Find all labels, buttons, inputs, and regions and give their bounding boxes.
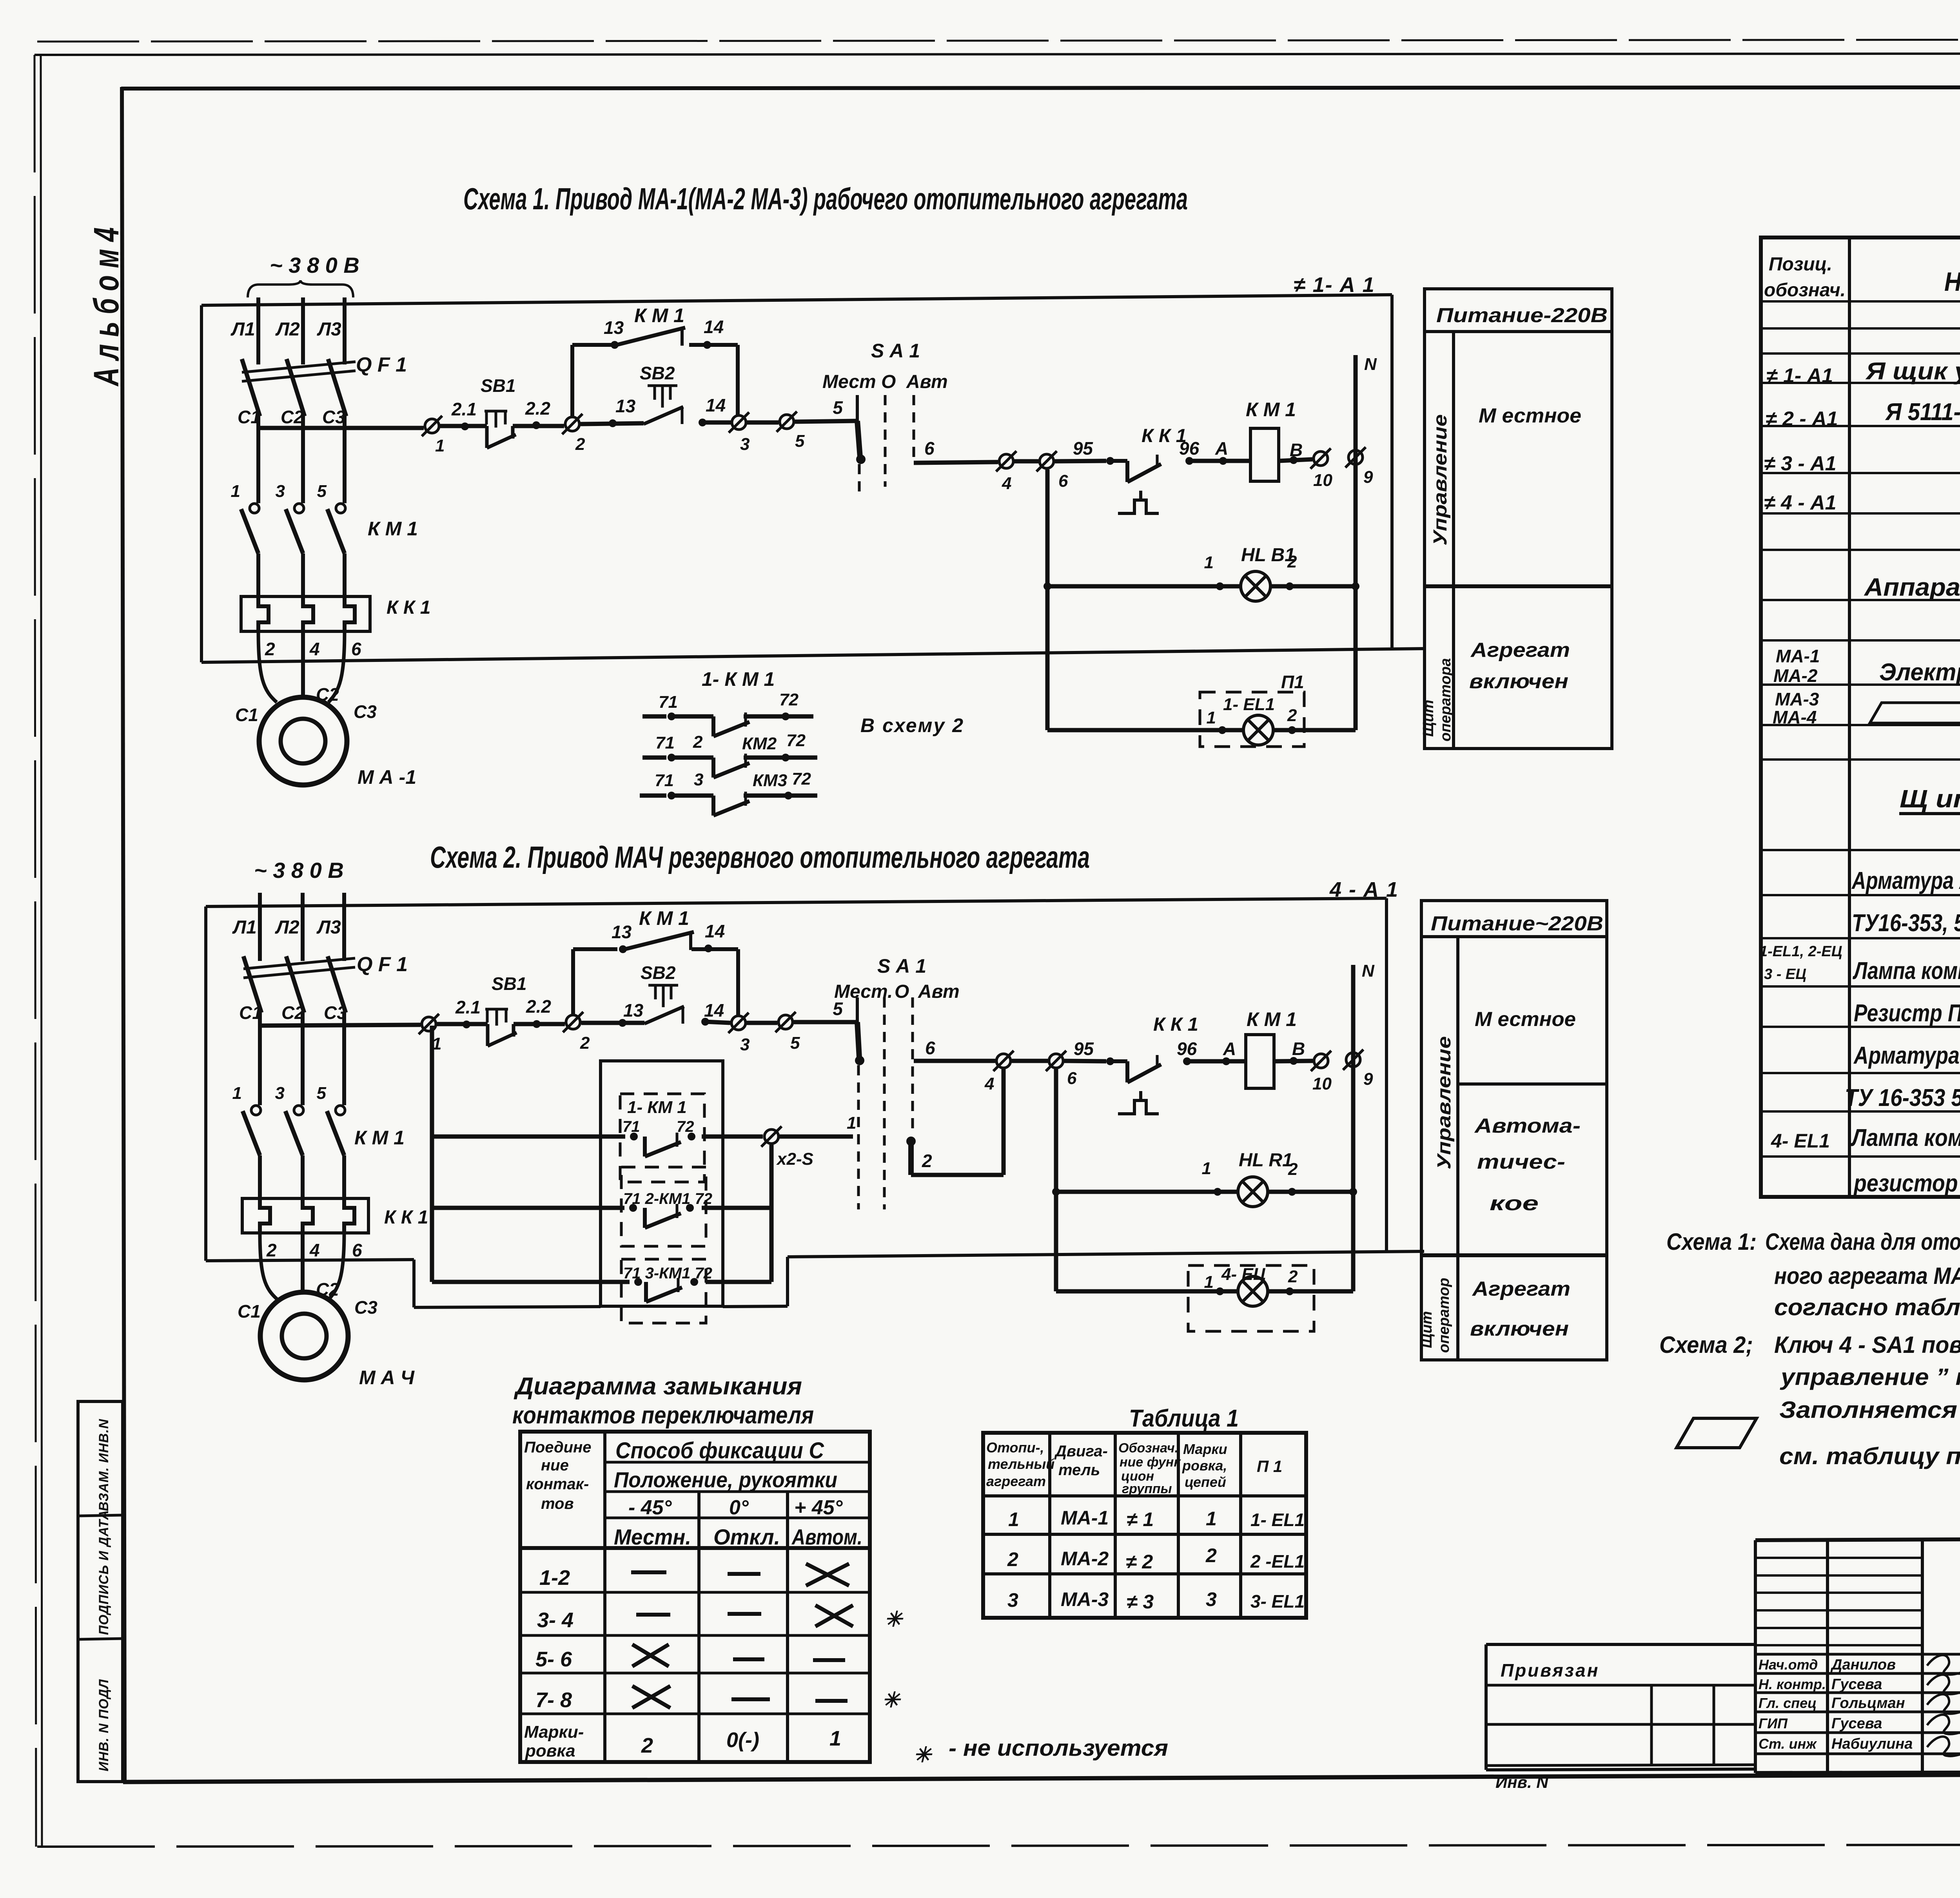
- spec section Щит оператора: [1899, 785, 1960, 814]
- svg-text:Поедине: Поедине: [524, 1439, 592, 1456]
- svg-text:SВ1: SВ1: [481, 375, 515, 396]
- schema 1 supply label ~380В: [270, 253, 359, 277]
- blank reference parallelogram: [1677, 1418, 1757, 1448]
- interlock contact 2-КМ1 line: [432, 1204, 771, 1228]
- svg-text:МА-1: МА-1: [1776, 646, 1820, 666]
- svg-text:ние: ние: [541, 1457, 569, 1474]
- terminal 3 (schema1): [729, 412, 750, 454]
- svg-text:SВ2: SВ2: [640, 363, 675, 383]
- label QF1 (schema2): [357, 953, 408, 976]
- KK1 release symbol (schema2): [1118, 1091, 1159, 1114]
- svg-text:А: А: [1215, 438, 1228, 459]
- terminal 5 (schema2): [775, 1012, 800, 1053]
- terminal 1 (schema2): [419, 1014, 441, 1053]
- svg-text:71 3-КМ1 72: 71 3-КМ1 72: [623, 1265, 712, 1282]
- svg-text:1: 1: [1202, 1159, 1211, 1178]
- label Агрегат включен (schema2): [1470, 1278, 1570, 1340]
- svg-text:х2-S: х2-S: [776, 1149, 813, 1169]
- note Схема 2: [1659, 1332, 1960, 1423]
- stamp strip label ИНВ. N ПОДЛ: [96, 1679, 111, 1771]
- table1 grid: [983, 1433, 1306, 1618]
- svg-text:N: N: [1362, 961, 1375, 981]
- wire SB2 to terminal 3 (schema2): [701, 1018, 730, 1026]
- svg-text:4- ЕL1: 4- ЕL1: [1771, 1130, 1830, 1152]
- terminal x2-S: [761, 1113, 856, 1169]
- outer border top (dashed): [37, 39, 1960, 42]
- svg-text:Нач.отд: Нач.отд: [1759, 1657, 1818, 1673]
- svg-text:О: О: [895, 981, 909, 1002]
- wire SB1 to terminal 2 (schema2): [514, 1020, 565, 1028]
- spec row МА-3 МА-4 motor symbol: [1773, 689, 1960, 727]
- svg-text:2: 2: [1288, 1267, 1298, 1286]
- svg-text:Лампа коммутаторная КМ24-90: Лампа коммутаторная КМ24-90: [1853, 957, 1960, 984]
- svg-text:4: 4: [309, 639, 320, 659]
- svg-text:С1: С1: [238, 407, 261, 427]
- wire 96 to A to coil (schema1): [1185, 457, 1250, 465]
- spec row ≠3-А1: [1764, 452, 1837, 475]
- inner frame top edge: [121, 87, 1960, 89]
- label A (schema1): [1215, 438, 1228, 459]
- svg-text:А: А: [1223, 1039, 1236, 1059]
- svg-text:управление ” после запуска: управление ” после запуска рабочего агре…: [1780, 1364, 1960, 1390]
- stop button SB1 (schema1): [481, 375, 516, 448]
- svg-text:С1: С1: [239, 1002, 262, 1023]
- svg-text:14: 14: [705, 921, 725, 941]
- svg-text:13: 13: [612, 922, 632, 942]
- table1 title: [1129, 1405, 1239, 1432]
- aux contacts group label 1-КМ1: [702, 668, 775, 690]
- svg-text:ТУ16-353, 582-76 в комплекте: ТУ16-353, 582-76 в комплекте:: [1852, 910, 1960, 937]
- label 96 (schema1): [1179, 438, 1200, 459]
- diagram row 7-8: [535, 1686, 901, 1712]
- svg-text:тельный: тельный: [988, 1456, 1054, 1472]
- svg-text:Набиулина: Набиулина: [1831, 1736, 1913, 1752]
- diagram row 1-2: [539, 1564, 849, 1590]
- svg-text:оператор: оператор: [1436, 1278, 1452, 1353]
- spec row ТУ 16-353 582-76 в комплекте: [1845, 1084, 1960, 1111]
- svg-text:- не используется: - не используется: [949, 1735, 1168, 1761]
- svg-text:≠ 1- А1: ≠ 1- А1: [1766, 364, 1833, 387]
- spec row ≠1-А1 Ящик управления: [1766, 358, 1960, 387]
- svg-text:Автома-: Автома-: [1474, 1115, 1581, 1137]
- П1 lamp circuit (schema1): [1047, 726, 1356, 734]
- table1 row 3: [1007, 1588, 1305, 1613]
- svg-text:6: 6: [1058, 471, 1068, 491]
- svg-text:ИНВ. N ПОДЛ: ИНВ. N ПОДЛ: [96, 1679, 111, 1771]
- wire from terminal6 down to lamps (schema1): [1045, 470, 1050, 730]
- svg-text:Агрегат: Агрегат: [1472, 1278, 1570, 1300]
- svg-text:Марки: Марки: [1183, 1441, 1227, 1457]
- svg-text:Данилов: Данилов: [1830, 1657, 1896, 1673]
- svg-text:7- 8: 7- 8: [535, 1688, 572, 1712]
- svg-text:3: 3: [740, 435, 750, 454]
- svg-text:+ 45°: + 45°: [794, 1496, 843, 1519]
- svg-text:Инв. N: Инв. N: [1495, 1773, 1549, 1791]
- label A (schema2): [1223, 1039, 1236, 1059]
- svg-text:4- ЕЦ: 4- ЕЦ: [1221, 1265, 1266, 1284]
- svg-text:6: 6: [925, 1038, 935, 1058]
- svg-text:95: 95: [1073, 438, 1094, 459]
- svg-text:группы: группы: [1122, 1481, 1172, 1496]
- 4-EL1 lamp circuit (schema2): [1056, 1287, 1353, 1295]
- svg-text:1: 1: [232, 1084, 242, 1103]
- svg-text:включен: включен: [1470, 1318, 1569, 1340]
- svg-text:КМ2: КМ2: [742, 734, 777, 753]
- signal lamp HLR1 line (schema2): [1052, 1188, 1357, 1196]
- label KK1 (schema2 heaters): [384, 1207, 428, 1228]
- svg-text:Щит: Щит: [1420, 700, 1437, 737]
- dashed accessory box 1-EL1 (schema1): [1200, 692, 1304, 747]
- svg-text:Авт: Авт: [918, 981, 960, 1002]
- label 2.2 (schema2): [526, 996, 551, 1017]
- svg-text:2.1: 2.1: [455, 997, 481, 1017]
- schema2 phase wire Л1: [258, 893, 262, 961]
- spec row Арматура АМЕ323221: [1851, 867, 1960, 894]
- svg-text:14: 14: [706, 395, 726, 415]
- svg-text:тичес-: тичес-: [1477, 1151, 1565, 1173]
- wire SB1 to terminal 2: [513, 421, 564, 429]
- svg-text:2.2: 2.2: [526, 996, 551, 1017]
- motor MA-1 (schema1): [259, 697, 347, 785]
- svg-text:Положение, рукоятки: Положение, рукоятки: [614, 1467, 837, 1492]
- svg-text:≠ 2: ≠ 2: [1126, 1551, 1153, 1573]
- svg-text:К М 1: К М 1: [368, 518, 418, 540]
- svg-text:П1: П1: [1281, 672, 1304, 692]
- label Инв. N: [1495, 1773, 1549, 1791]
- diagram row Маркировка: [524, 1722, 841, 1760]
- svg-text:Резистр ПЭВ-25 ТУ 16-535-582: Резистр ПЭВ-25 ТУ 16-535-582-76: [1854, 1000, 1960, 1027]
- svg-text:К М 1: К М 1: [354, 1127, 405, 1149]
- note см. таблицу применения: [1779, 1443, 1960, 1469]
- svg-text:резистор ПЭВ-25 ТУ16-535.582-: резистор ПЭВ-25 ТУ16-535.582-76: [1853, 1170, 1960, 1197]
- schema2 phase label Л3: [316, 917, 341, 938]
- motor MA4 terminal labels: [238, 1279, 377, 1322]
- svg-text:10: 10: [1312, 1074, 1332, 1093]
- svg-text:ние функ: ние функ: [1120, 1455, 1181, 1470]
- svg-text:95: 95: [1074, 1039, 1094, 1059]
- svg-text:Автом.: Автом.: [791, 1525, 862, 1549]
- svg-text:Питание~220В: Питание~220В: [1431, 912, 1603, 935]
- svg-text:Гольцман: Гольцман: [1831, 1695, 1905, 1711]
- contactor KM1 main contacts (schema1): [231, 428, 345, 597]
- stop button SB1 (schema2): [485, 973, 526, 1046]
- svg-text:М естное: М естное: [1475, 1008, 1576, 1031]
- svg-text:3: 3: [1007, 1589, 1018, 1611]
- spec header Позиц. обознач.: [1764, 254, 1846, 301]
- svg-text:Аппаратура по месту: Аппаратура по месту: [1864, 573, 1960, 601]
- svg-text:С1: С1: [238, 1301, 261, 1322]
- outer border left lines: [34, 55, 42, 1847]
- title block name rows: [1755, 1654, 1960, 1773]
- svg-text:тель: тель: [1058, 1461, 1100, 1479]
- svg-text:4: 4: [1002, 474, 1011, 493]
- svg-text:ГИП: ГИП: [1759, 1715, 1788, 1731]
- label KK1 (schema1): [1142, 426, 1187, 446]
- svg-text:Мест: Мест: [822, 372, 876, 392]
- svg-text:Авт: Авт: [906, 372, 948, 392]
- svg-text:2 -ЕL1: 2 -ЕL1: [1250, 1551, 1305, 1572]
- label Нач.отд Данилов: [1759, 1657, 1896, 1673]
- svg-text:С2: С2: [316, 684, 339, 705]
- wire rail to SB2 (schema2): [581, 1019, 644, 1027]
- label 71 3-КМ1 72: [623, 1265, 712, 1282]
- svg-text:2: 2: [1287, 706, 1297, 725]
- inner frame left edge: [122, 87, 125, 1782]
- labels 2 4 6 under KK1 (schema1): [265, 639, 361, 659]
- svg-text:см. таблицу применения л: см. таблицу применения лист ЭМ-5: [1779, 1443, 1960, 1469]
- svg-text:14: 14: [704, 1000, 724, 1021]
- svg-text:К М 1: К М 1: [634, 305, 684, 326]
- terminal 1 (schema1): [422, 416, 445, 455]
- svg-text:5: 5: [317, 482, 327, 501]
- svg-text:Арматура АМЕ 321221 У2 ~220В: Арматура АМЕ 321221 У2 ~220В: [1853, 1042, 1960, 1069]
- thermal relay KK1 contact (schema2): [1110, 1055, 1161, 1082]
- spec section Аппаратура по месту: [1864, 573, 1960, 601]
- outer border secondary top line: [34, 53, 1960, 55]
- schema 2 enclosure box: [206, 898, 1424, 1307]
- svg-text:Схема дана для отопительно: Схема дана для отопительного агрегата МА…: [1765, 1229, 1960, 1255]
- svg-text:Заполняется при привязке: Заполняется при привязке проекта.: [1779, 1397, 1960, 1423]
- spec row ≠2-А1 Я5111-2474 УХЛ4: [1766, 399, 1960, 430]
- lamp 4-EL1 (schema2): [1204, 1265, 1298, 1306]
- wire rail C1-C3 tie: [258, 426, 345, 430]
- svg-text:К М 1: К М 1: [639, 907, 689, 929]
- terminal 9 (schema2): [1343, 1050, 1373, 1089]
- svg-text:Q F 1: Q F 1: [356, 353, 407, 376]
- svg-text:1- ЕL1: 1- ЕL1: [1250, 1510, 1305, 1530]
- svg-text:Л2: Л2: [275, 319, 300, 340]
- label Питание-220В (schema1): [1436, 304, 1608, 327]
- svg-text:71: 71: [622, 1118, 640, 1135]
- svg-text:13: 13: [623, 1000, 644, 1021]
- svg-text:К М 1: К М 1: [1246, 399, 1296, 421]
- switch SA1 (schema2): Мест contact arm: [833, 997, 864, 1209]
- solid box around interlock contacts: [601, 1061, 723, 1306]
- terminal 5 (schema1): [777, 412, 805, 451]
- label B (schema2): [1292, 1039, 1305, 1059]
- svg-text:Управление: Управление: [1430, 414, 1451, 546]
- svg-text:HL R1: HL R1: [1239, 1150, 1293, 1171]
- svg-text:Питание-220В: Питание-220В: [1436, 304, 1608, 327]
- svg-text:Ст. инж: Ст. инж: [1759, 1736, 1817, 1752]
- SA1 Авт contact arm (schema2): [906, 1069, 1004, 1175]
- svg-text:3: 3: [694, 770, 703, 789]
- svg-text:1-ЕL1, 2-ЕЦ: 1-ЕL1, 2-ЕЦ: [1759, 943, 1842, 960]
- terminal 10 (schema1): [1310, 448, 1332, 490]
- spec row МА-1 МА-2 Электродвигатель: [1773, 646, 1960, 686]
- interlock contact 1-КМ1 line: [432, 1133, 763, 1157]
- svg-text:Отопи-,: Отопи-,: [986, 1439, 1044, 1456]
- SA1 dashed position lines (schema2): [884, 997, 913, 1209]
- svg-text:МА-3: МА-3: [1775, 689, 1819, 709]
- svg-text:тов: тов: [541, 1495, 574, 1512]
- wire coil to terminal 10 (schema2): [1274, 1057, 1313, 1065]
- wire 96 to A to coil (schema2): [1183, 1057, 1246, 1065]
- svg-text:3: 3: [740, 1035, 750, 1054]
- svg-text:1: 1: [847, 1113, 856, 1133]
- svg-text:71 2-КМ1 72: 71 2-КМ1 72: [623, 1190, 712, 1207]
- svg-text:КМ3: КМ3: [753, 771, 787, 790]
- motor MA-1 terminal labels: [235, 684, 377, 725]
- schema2 main control rail: [260, 1025, 421, 1026]
- label П1: [1281, 672, 1304, 692]
- wire to SB1: [440, 422, 487, 430]
- table1 header П1: [1257, 1457, 1282, 1476]
- svg-text:2.2: 2.2: [525, 398, 550, 419]
- svg-text:3 - ЕЦ: 3 - ЕЦ: [1764, 966, 1806, 983]
- svg-text:≠ 2 - А1: ≠ 2 - А1: [1766, 408, 1838, 430]
- svg-text:включен: включен: [1469, 670, 1568, 693]
- svg-text:МА-2: МА-2: [1773, 665, 1818, 686]
- labels 13 14 at SB2 (schema2): [623, 1000, 724, 1021]
- svg-text:В: В: [1292, 1039, 1305, 1059]
- svg-text:2: 2: [265, 639, 275, 659]
- svg-text:13: 13: [615, 396, 636, 416]
- svg-text:кое: кое: [1490, 1192, 1539, 1215]
- diagram header Способ фиксации С: [615, 1438, 824, 1463]
- svg-text:5: 5: [790, 1033, 800, 1053]
- svg-text:9: 9: [1363, 468, 1373, 487]
- svg-text:≠ 1- А 1: ≠ 1- А 1: [1294, 273, 1375, 297]
- svg-text:2.1: 2.1: [451, 399, 477, 419]
- motor MA4 wires: [260, 1233, 344, 1300]
- svg-text:4: 4: [309, 1240, 320, 1260]
- svg-text:2: 2: [922, 1151, 932, 1171]
- svg-text:✳: ✳: [913, 1743, 933, 1767]
- svg-text:Способ фиксации С: Способ фиксации С: [615, 1438, 824, 1463]
- svg-text:- 45°: - 45°: [628, 1496, 672, 1519]
- svg-text:S А 1: S А 1: [877, 955, 926, 977]
- svg-text:2: 2: [575, 435, 585, 454]
- schema 1 enclosure box: [201, 295, 1425, 662]
- svg-text:Лампа коммутаторная КМ24-90: Лампа коммутаторная КМ24-90: [1851, 1124, 1960, 1151]
- svg-text:3: 3: [275, 1084, 285, 1103]
- svg-text:Марки-: Марки-: [524, 1722, 584, 1742]
- diagram header positions: [614, 1525, 862, 1549]
- table1 header Двигатель: [1054, 1443, 1108, 1479]
- left stamp strip box: [78, 1401, 123, 1782]
- label Щит оператора (schema2): [1419, 1278, 1452, 1353]
- label KM1 (schema2 main): [354, 1127, 405, 1149]
- svg-text:2: 2: [693, 732, 703, 752]
- label МАЧ: [359, 1367, 415, 1389]
- svg-text:Схема 1:: Схема 1:: [1666, 1229, 1757, 1255]
- svg-text:контактов переключателя: контактов переключателя: [512, 1402, 814, 1429]
- svg-text:14: 14: [704, 317, 724, 337]
- svg-text:1-2: 1-2: [539, 1566, 570, 1590]
- svg-text:ровка: ровка: [525, 1741, 575, 1760]
- wire SB2 to terminal 3: [699, 419, 731, 426]
- svg-text:1: 1: [1204, 1273, 1214, 1292]
- svg-text:5: 5: [795, 431, 805, 451]
- svg-text:А л ь б о м 4: А л ь б о м 4: [87, 227, 126, 386]
- svg-text:Схема 1. Привод МА-1(МА-2 М: Схема 1. Привод МА-1(МА-2 МА-3) рабочего…: [463, 181, 1188, 216]
- svg-text:П 1: П 1: [1257, 1457, 1282, 1476]
- svg-text:0°: 0°: [729, 1496, 749, 1519]
- svg-text:Схема 2. Привод МАЧ резервн: Схема 2. Привод МАЧ резервного отопитель…: [430, 840, 1090, 874]
- svg-text:13: 13: [604, 317, 624, 338]
- spec row Арматура АМЕ321221: [1853, 1042, 1960, 1069]
- terminal 2 (schema2): [563, 1012, 590, 1053]
- svg-text:МА-3: МА-3: [1061, 1588, 1109, 1610]
- svg-text:6: 6: [1067, 1069, 1077, 1088]
- wire terminal5 to SA1: [795, 421, 857, 422]
- svg-text:96: 96: [1177, 1039, 1197, 1059]
- svg-text:3- 4: 3- 4: [537, 1608, 573, 1632]
- contactor KM1 main contacts (schema2): [232, 1026, 345, 1198]
- svg-text:ТУ 16-353 582-76 в комплект: ТУ 16-353 582-76 в комплекте:: [1845, 1084, 1960, 1111]
- terminal 4 (schema1): [996, 451, 1016, 493]
- label Местное (schema2): [1475, 1008, 1576, 1031]
- specification table grid: [1761, 237, 1960, 1197]
- svg-text:контак-: контак-: [526, 1476, 589, 1493]
- svg-text:Местн.: Местн.: [614, 1525, 691, 1549]
- svg-text:1: 1: [435, 436, 445, 455]
- schema 1 title: [463, 181, 1188, 216]
- svg-text:Я щик управления: Я щик управления: [1865, 358, 1960, 385]
- contactor coil KM1 (schema1): [1246, 399, 1296, 481]
- svg-text:ПОДПИСЬ И ДАТА: ПОДПИСЬ И ДАТА: [96, 1510, 111, 1635]
- label В схему 2: [860, 714, 964, 736]
- lamp HLB1 (schema1): [1204, 545, 1297, 601]
- diagram header Положение, рукоятки: [614, 1467, 837, 1492]
- svg-text:1: 1: [829, 1727, 841, 1750]
- svg-text:1- КМ 1: 1- КМ 1: [627, 1098, 687, 1117]
- svg-text:Наименование: Наименование: [1944, 267, 1960, 297]
- svg-text:агрегат: агрегат: [986, 1473, 1046, 1489]
- svg-text:1: 1: [1206, 1508, 1217, 1530]
- svg-text:Л3: Л3: [317, 319, 341, 340]
- svg-text:2: 2: [1287, 552, 1297, 571]
- labels Мест О Авт (schema1): [822, 372, 948, 392]
- svg-text:Позиц.: Позиц.: [1769, 254, 1832, 275]
- svg-text:Обознач.: Обознач.: [1118, 1441, 1178, 1456]
- thermal relay KK1 heaters (schema1): [241, 596, 370, 631]
- table1 row 1: [1008, 1507, 1305, 1530]
- wire from terminal6 down to lamps (schema2): [1054, 1069, 1058, 1291]
- wire coil to terminal 10: [1279, 456, 1312, 464]
- label Управление (schema1): [1430, 414, 1451, 546]
- table1 header Отопительный агрегат: [986, 1439, 1054, 1489]
- dashed box 1-КМ1: [620, 1094, 704, 1182]
- start button SB2 (schema2): [641, 963, 684, 1024]
- svg-text:М А Ч: М А Ч: [359, 1367, 415, 1389]
- table1 header Маркировка цепей: [1182, 1441, 1227, 1490]
- start button SB2 (schema1): [640, 363, 683, 424]
- label Местное (schema1): [1479, 404, 1581, 427]
- label Привязан: [1501, 1660, 1599, 1680]
- svg-text:6: 6: [352, 1240, 362, 1260]
- schema2 phase label Л2: [275, 917, 299, 938]
- schema 2 box designator 4-А1: [1329, 878, 1399, 901]
- lamp 1-EL1 (schema1): [1207, 695, 1297, 745]
- svg-text:С3: С3: [324, 1002, 347, 1023]
- svg-text:К М 1: К М 1: [1247, 1008, 1297, 1030]
- svg-text:≠ 1: ≠ 1: [1127, 1508, 1154, 1530]
- svg-text:С3: С3: [354, 1297, 377, 1318]
- label 95 (schema2): [1074, 1039, 1094, 1059]
- power supply box Питание-220В (schema1): [1425, 289, 1612, 749]
- labels 13 14 at SB2 (schema1): [615, 395, 726, 416]
- svg-text:96: 96: [1179, 438, 1200, 459]
- label Агрегат включен (schema1): [1469, 639, 1570, 693]
- label KK1 (schema1 heaters): [387, 597, 430, 618]
- svg-text:Л2: Л2: [275, 917, 299, 938]
- label 96 (schema2): [1177, 1039, 1197, 1059]
- terminal 3 (schema2): [728, 1013, 750, 1054]
- svg-text:Гусева: Гусева: [1831, 1676, 1882, 1693]
- KM1 holding contact branch (schema1): [572, 305, 738, 422]
